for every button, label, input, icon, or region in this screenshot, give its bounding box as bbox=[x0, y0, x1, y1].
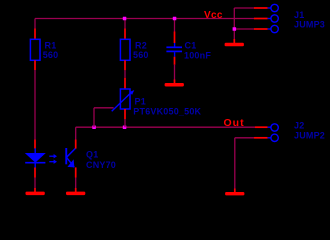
pin J2-2 stub bbox=[254, 137, 268, 139]
ground G5 (under J2) bbox=[225, 189, 244, 196]
resistor R2 bbox=[120, 39, 130, 60]
wire R1 top segment bbox=[34, 19, 36, 29]
svg-text:Q1: Q1 bbox=[86, 149, 98, 159]
svg-text:J2: J2 bbox=[294, 121, 304, 131]
wire C1 to ground bbox=[174, 65, 176, 80]
pin LED anode bbox=[34, 140, 36, 149]
wire R2 top segment bbox=[124, 19, 126, 29]
wire P1 to Out bbox=[124, 119, 126, 127]
svg-text:PT6VK050_50K: PT6VK050_50K bbox=[133, 107, 201, 117]
transistor Q1 (phototransistor of CNY70) bbox=[65, 148, 75, 167]
ground G3 (under C1) bbox=[165, 80, 184, 87]
capacitor C1 bbox=[166, 43, 182, 57]
wire Out horizontal bbox=[76, 126, 256, 128]
wire Vcc rail bbox=[35, 18, 234, 20]
svg-text:R1: R1 bbox=[45, 40, 57, 50]
pin P1 top bbox=[124, 78, 126, 90]
ground G4 (under J1) bbox=[225, 39, 244, 46]
pin Q1 emitter bbox=[75, 167, 77, 177]
pin Q1 collector bbox=[75, 140, 77, 149]
pin J2-1 stub bbox=[255, 126, 268, 128]
svg-text:Out: Out bbox=[224, 117, 245, 129]
wire J2 pin2 to ground bbox=[234, 138, 236, 189]
ground G2 (under Q1) bbox=[66, 188, 85, 195]
pin C1 top bbox=[174, 32, 176, 44]
pin J1-3 stub bbox=[254, 28, 268, 30]
pin R2 bottom bbox=[124, 60, 126, 70]
wire LED cathode to ground bbox=[34, 178, 36, 189]
wire J1 pin1 net bbox=[234, 7, 254, 9]
svg-text:560: 560 bbox=[133, 50, 149, 60]
junction Out x wiper bbox=[92, 126, 96, 130]
wire emitter to ground bbox=[75, 178, 77, 189]
trimmer P1 body bbox=[120, 89, 130, 109]
connector J1 pads bbox=[268, 4, 279, 32]
wire J1 pin2 net bbox=[234, 18, 254, 20]
svg-text:J1: J1 bbox=[294, 10, 304, 20]
svg-text:P1: P1 bbox=[135, 96, 146, 106]
wire R2 to P1 bbox=[124, 70, 126, 78]
wire J1 vertical bus bbox=[233, 8, 235, 39]
pin J1-2 stub bbox=[254, 18, 268, 20]
pin C1 bottom bbox=[174, 57, 176, 65]
svg-text:CNY70: CNY70 bbox=[86, 160, 116, 170]
wire C1 top segment bbox=[174, 19, 176, 32]
pin LED cathode bbox=[34, 168, 36, 178]
wire R1 to LED anode bbox=[34, 70, 36, 140]
optical coupling arrows bbox=[49, 154, 57, 164]
pin J1-1 stub bbox=[254, 7, 268, 9]
junction Vcc x R2 column bbox=[123, 17, 127, 21]
pin R1 bottom bbox=[34, 60, 36, 70]
wire collector riser to Out bbox=[75, 127, 77, 139]
svg-text:JUMP3: JUMP3 bbox=[294, 20, 325, 30]
svg-text:R2: R2 bbox=[135, 40, 147, 50]
svg-text:560: 560 bbox=[43, 50, 59, 60]
wire J1 pin3 net bbox=[234, 28, 254, 30]
wire J2 pin2 net bbox=[235, 137, 254, 139]
svg-text:100nF: 100nF bbox=[184, 50, 211, 60]
wire wiper vertical bbox=[93, 108, 95, 127]
svg-text:C1: C1 bbox=[185, 40, 197, 50]
resistor R1 bbox=[30, 39, 40, 60]
junction Out x P1 column bbox=[123, 126, 127, 130]
svg-text:JUMP2: JUMP2 bbox=[294, 131, 325, 141]
trimmer P1 wiper arrow bbox=[112, 90, 135, 111]
pin R1 top bbox=[34, 29, 36, 40]
junction Vcc x C1 column bbox=[173, 17, 177, 21]
wire wiper horizontal bbox=[94, 107, 114, 109]
pin R2 top bbox=[124, 29, 126, 40]
ground G1 (under LED) bbox=[26, 188, 45, 195]
junction J1 column x pin3 bbox=[233, 27, 237, 31]
pin P1 bottom bbox=[124, 109, 126, 119]
LED of Q1 CNY70 (emitter diode) bbox=[25, 148, 46, 167]
svg-text:Vcc: Vcc bbox=[204, 10, 223, 21]
connector J2 pads bbox=[268, 124, 279, 142]
